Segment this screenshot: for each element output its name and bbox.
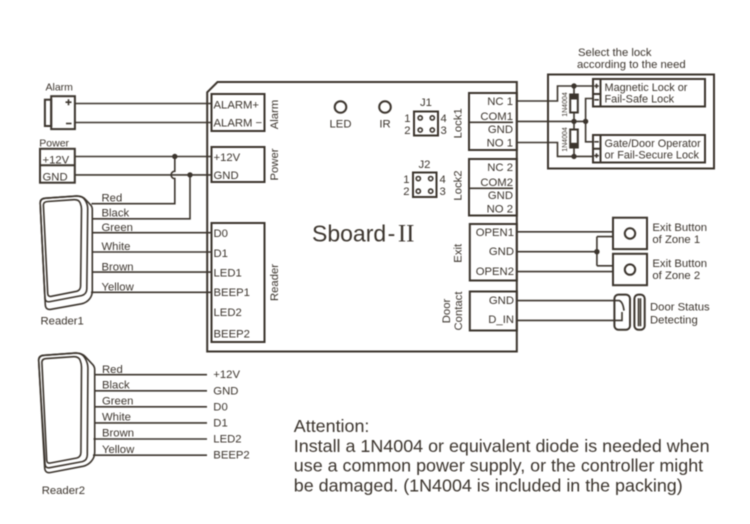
svg-text:LED: LED [330, 119, 352, 131]
svg-text:be damaged. (1N4004 is include: be damaged. (1N4004 is included in the p… [294, 475, 683, 495]
svg-text:of Zone 2: of Zone 2 [652, 270, 700, 282]
svg-text:Gate/Door Operator: Gate/Door Operator [605, 138, 702, 150]
svg-text:BEEP2: BEEP2 [214, 329, 250, 341]
svg-text:LED2: LED2 [214, 307, 242, 319]
svg-text:Door Status: Door Status [650, 302, 710, 314]
svg-text:D0: D0 [214, 228, 228, 240]
svg-text:Reader1: Reader1 [41, 316, 84, 328]
svg-text:Magnetic Lock or: Magnetic Lock or [605, 82, 688, 94]
svg-text:ALARM+: ALARM+ [214, 100, 260, 112]
svg-text:or Fail-Secure Lock: or Fail-Secure Lock [605, 149, 700, 161]
svg-text:3: 3 [441, 125, 447, 137]
svg-text:of Zone 1: of Zone 1 [652, 234, 700, 246]
svg-text:use a common power supply, or: use a common power supply, or the contro… [294, 456, 703, 476]
svg-text:D0: D0 [213, 401, 227, 413]
svg-text:GND: GND [213, 385, 238, 397]
svg-text:Exit Button: Exit Button [652, 222, 707, 234]
svg-text:Power: Power [269, 148, 281, 180]
svg-text:NC 1: NC 1 [487, 96, 513, 108]
svg-text:Select the lock: Select the lock [578, 47, 652, 59]
svg-text:NO 2: NO 2 [487, 204, 513, 216]
svg-text:Red: Red [102, 193, 123, 205]
svg-text:4: 4 [440, 174, 446, 186]
svg-text:Exit: Exit [453, 243, 465, 263]
svg-text:Alarm: Alarm [269, 100, 281, 130]
svg-text:+12V: +12V [214, 152, 241, 164]
svg-text:OPEN2: OPEN2 [476, 266, 514, 278]
svg-text:OPEN1: OPEN1 [476, 227, 514, 239]
svg-text:according to the need: according to the need [577, 59, 686, 71]
svg-text:Detecting: Detecting [650, 315, 698, 327]
svg-text:Lock2: Lock2 [453, 170, 465, 200]
svg-text:2: 2 [404, 125, 410, 137]
svg-text:BEEP2: BEEP2 [213, 450, 249, 462]
svg-text:2: 2 [403, 186, 409, 198]
svg-text:NC 2: NC 2 [487, 162, 513, 174]
svg-text:D1: D1 [213, 417, 227, 429]
svg-text:1N4004: 1N4004 [562, 127, 569, 152]
svg-text:COM2: COM2 [480, 177, 513, 189]
svg-text:GND: GND [488, 124, 513, 136]
svg-text:GND: GND [43, 172, 68, 184]
svg-text:LED2: LED2 [213, 434, 241, 446]
svg-text:D_IN: D_IN [488, 314, 514, 326]
svg-text:3: 3 [440, 186, 446, 198]
svg-text:D1: D1 [214, 248, 228, 260]
svg-text:1: 1 [404, 113, 410, 125]
svg-text:J1: J1 [420, 97, 432, 109]
svg-text:4: 4 [441, 113, 447, 125]
svg-text:Door: Door [441, 299, 453, 324]
svg-text:J2: J2 [419, 159, 431, 171]
svg-text:ALARM −: ALARM − [214, 118, 263, 130]
svg-text:Black: Black [102, 208, 130, 220]
svg-text:Lock1: Lock1 [453, 108, 465, 138]
svg-text:Brown: Brown [102, 428, 134, 440]
svg-text:Fail-Safe Lock: Fail-Safe Lock [605, 93, 675, 105]
svg-text:GND: GND [489, 246, 514, 258]
svg-text:NO 1: NO 1 [487, 138, 513, 150]
svg-text:COM1: COM1 [480, 111, 513, 123]
svg-text:GND: GND [214, 170, 239, 182]
svg-text:GND: GND [488, 190, 513, 202]
svg-text:Contact: Contact [453, 291, 465, 331]
svg-text:Install a 1N4004 or equivalent: Install a 1N4004 or equivalent diode is … [294, 436, 710, 456]
svg-text:Power: Power [39, 138, 69, 150]
svg-text:1N4004: 1N4004 [562, 92, 569, 117]
svg-text:Yellow: Yellow [102, 444, 135, 456]
svg-text:Attention:: Attention: [294, 416, 370, 436]
svg-text:BEEP1: BEEP1 [214, 287, 250, 299]
svg-text:+12V: +12V [213, 369, 240, 381]
svg-text:IR: IR [379, 119, 390, 131]
svg-text:Reader: Reader [269, 264, 281, 301]
svg-text:Exit Button: Exit Button [652, 258, 707, 270]
svg-text:Green: Green [102, 396, 133, 408]
svg-text:LED1: LED1 [214, 268, 242, 280]
svg-text:Reader2: Reader2 [42, 485, 85, 497]
svg-text:1: 1 [403, 174, 409, 186]
svg-text:+12V: +12V [43, 155, 70, 167]
svg-text:Sboard-II: Sboard-II [312, 220, 415, 247]
svg-text:White: White [102, 412, 131, 424]
svg-text:GND: GND [489, 295, 514, 307]
svg-text:Black: Black [102, 380, 130, 392]
svg-text:Alarm: Alarm [46, 82, 74, 94]
